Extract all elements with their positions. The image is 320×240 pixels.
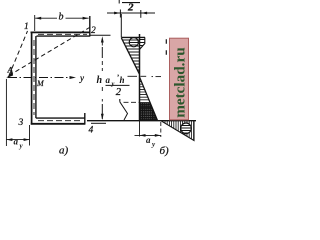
leader from formula to diagram: [119, 99, 121, 102]
bottom flange centerline: [38, 120, 82, 122]
mid crossing dash-dot line: [128, 75, 162, 77]
hatch upper left triangle: [118, 40, 148, 73]
svg-text:a: a: [146, 135, 151, 145]
y axis (dash-dot): [8, 77, 72, 79]
hatch lower web triangle: [138, 79, 160, 121]
dashed ray A to 1: [9, 31, 28, 76]
extension line below A: [5, 79, 7, 146]
svg-text:2: 2: [127, 2, 134, 14]
top fraction bar: [122, 2, 140, 4]
top flange: [31, 32, 90, 36]
crosshatch lower web triangle dense zone: [138, 103, 160, 121]
svg-text:y: y: [19, 142, 24, 150]
dashed extension right of diagram: [165, 39, 167, 56]
top flange centerline: [38, 33, 87, 35]
bottom flange: [31, 118, 85, 124]
diagram baseline: [139, 34, 141, 121]
dimension a_y (fig b): [135, 121, 161, 137]
y axis arrowhead: [70, 76, 77, 79]
svg-text:a: a: [106, 75, 111, 85]
svg-text:2: 2: [91, 26, 96, 36]
svg-text:M: M: [36, 79, 45, 88]
svg-text:b: b: [59, 12, 64, 23]
watermark metclad.ru: [170, 38, 189, 120]
svg-text:h: h: [120, 75, 125, 85]
svg-text:4: 4: [89, 126, 94, 136]
web: [32, 32, 36, 125]
bottom right flange triangle outline: [161, 121, 194, 141]
lower web triangle outline: [140, 77, 158, 121]
svg-text:3: 3: [18, 118, 24, 128]
pole A marker: [6, 72, 13, 78]
web centerline: [33, 40, 35, 115]
bottom flange end cap (corner 4): [84, 113, 86, 125]
upper right flange triangle outline: [140, 37, 145, 49]
svg-text:y: y: [79, 73, 84, 83]
extension line left of diagram top: [120, 14, 122, 38]
dimension a_y (fig a): [6, 125, 29, 146]
upper web triangle outline: [121, 38, 139, 74]
hatch bottom right triangle: [163, 119, 194, 142]
svg-text:A: A: [7, 65, 14, 75]
top fraction tick: [118, 0, 120, 4]
common bottom line continuing to diagram: [87, 120, 196, 122]
svg-text:y: y: [151, 141, 156, 149]
svg-text:б): б): [160, 145, 170, 157]
formula a_y h / 2: [106, 73, 125, 98]
svg-text:2: 2: [116, 87, 122, 98]
circle marker 1: [128, 38, 140, 47]
dimension b: [35, 15, 89, 31]
svg-text:h: h: [97, 75, 103, 86]
svg-text:1: 1: [24, 22, 29, 32]
top dimension of diagram: [107, 10, 155, 18]
svg-text:а): а): [59, 145, 69, 157]
diagram top edge: [121, 36, 145, 38]
dimension h: [90, 35, 111, 123]
svg-text:a: a: [14, 137, 19, 147]
dashed ray A to 2: [9, 28, 90, 76]
svg-text:y: y: [111, 81, 115, 88]
top flange end cap (corner 2) + b extension: [89, 16, 91, 37]
svg-text:metclad.ru: metclad.ru: [172, 47, 189, 118]
formula fraction bar: [106, 84, 130, 86]
circle marker 2: [180, 123, 192, 134]
hatch upper right triangle: [138, 40, 148, 49]
